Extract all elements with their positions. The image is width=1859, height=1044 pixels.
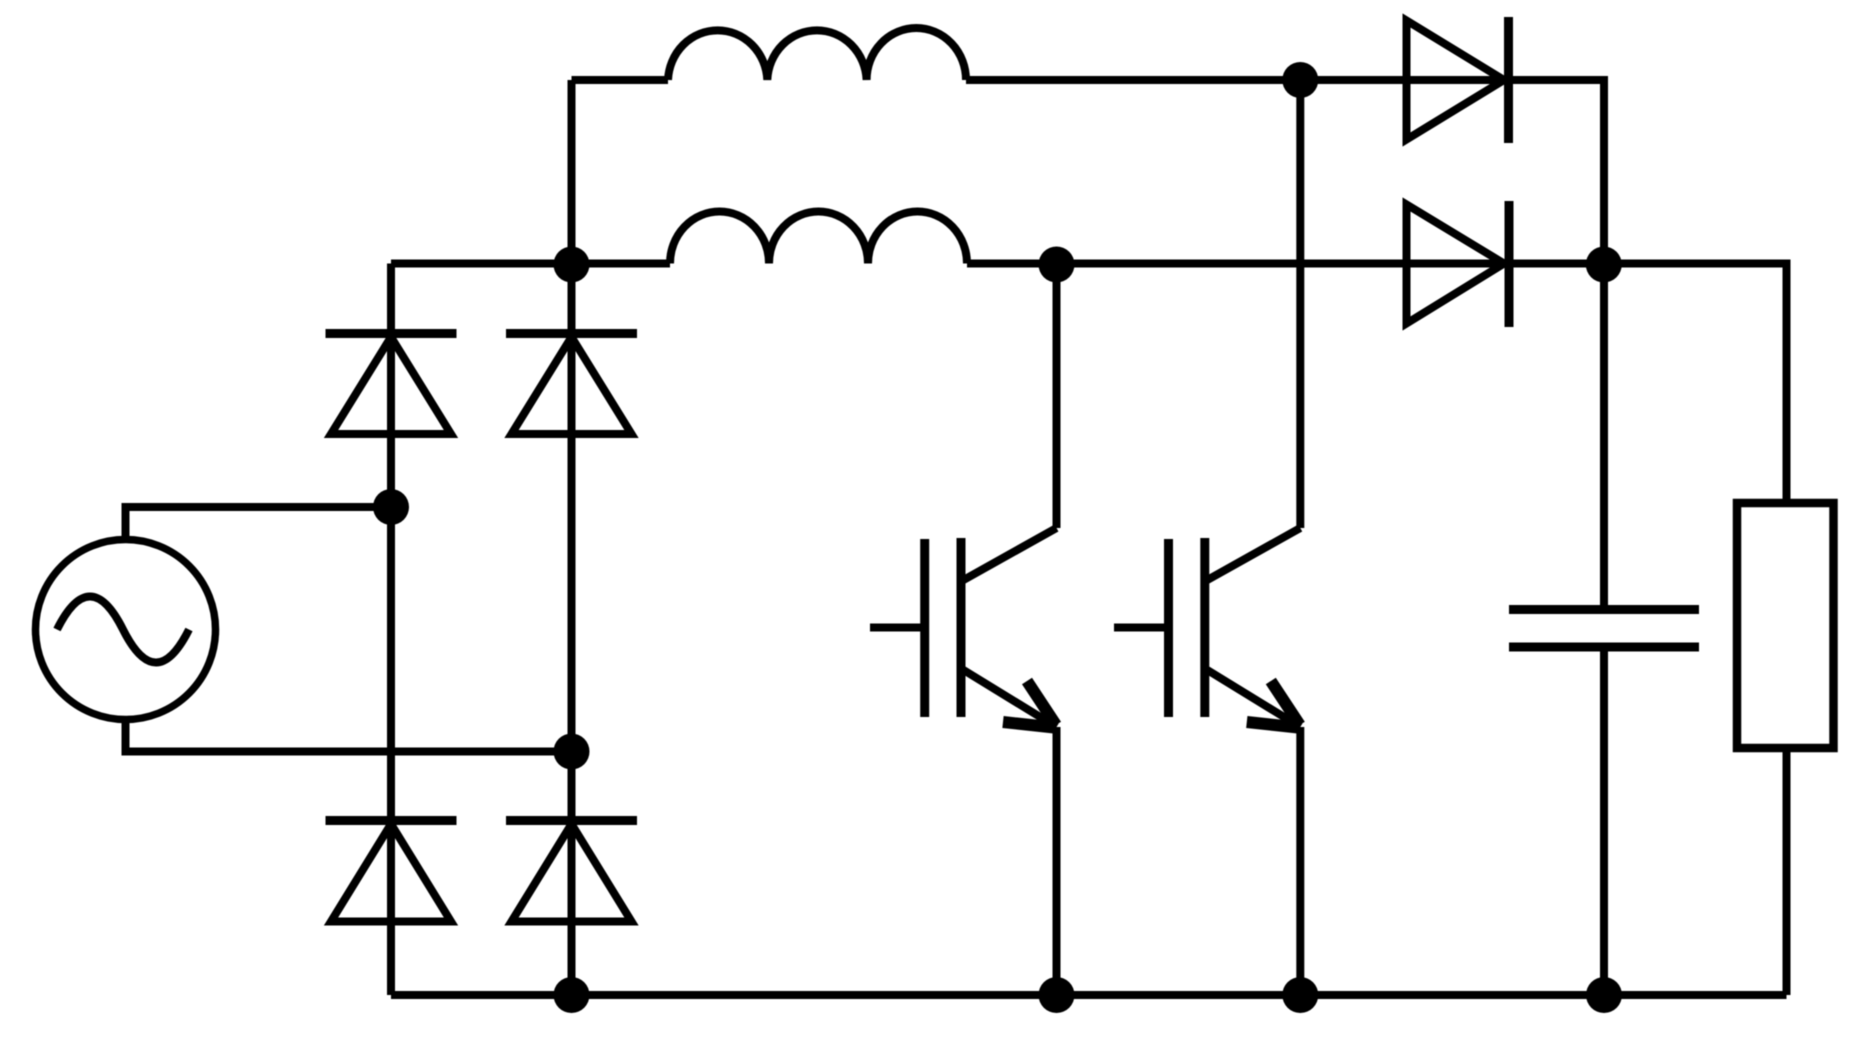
node B: AC bottom / mid bridge leg junction bbox=[554, 734, 590, 770]
wire: Q2 emitter vertical down to bottom rail bbox=[1296, 727, 1304, 995]
inductor L2 (second row, 3 humps) bbox=[670, 212, 967, 264]
wire: top rail from D5 cathode to top-right corner, down right leg to capacitor top plate bbox=[1509, 80, 1605, 610]
node J: bottom rail / capacitor junction bbox=[1586, 977, 1622, 1013]
AC source V1 (circle with sine) bbox=[36, 540, 216, 720]
wire: row2 from node C to inductor L2 bbox=[572, 260, 671, 268]
IGBT Q2 emitter diagonal with arrow bbox=[1207, 670, 1300, 727]
wire: left bridge leg vertical (row2 corner down through D1, node A, D3 to bottom rail corner) bbox=[387, 264, 395, 996]
resistor R1 load box bbox=[1737, 503, 1834, 748]
node G: bottom rail / mid leg junction bbox=[554, 977, 590, 1013]
diode D4 (bridge lower-right, cathode bar) bbox=[506, 816, 637, 825]
wire: top rail lead-in from corner to inductor L1 bbox=[572, 76, 669, 84]
IGBT Q2 emitter arrowhead bbox=[1247, 681, 1300, 728]
node F: D6 cathode / right leg junction bbox=[1586, 247, 1622, 283]
IGBT Q1 emitter arrowhead bbox=[1003, 681, 1056, 728]
wire: AC source bottom lead down and right to node B (crosses left bridge leg without junction) bbox=[126, 723, 572, 752]
diode D4 triangle bbox=[512, 824, 632, 922]
diode D2 (bridge upper-right, cathode bar) bbox=[506, 329, 637, 338]
node A: AC top / left bridge leg junction bbox=[373, 489, 409, 525]
IGBT Q2 body bar bbox=[1200, 538, 1209, 717]
wire: Q1 collector vertical up to node E bbox=[1053, 264, 1061, 528]
diode D5 cathode bar bbox=[1504, 17, 1513, 143]
capacitor C1 top plate bbox=[1509, 605, 1699, 614]
diode D6 (boost diode row2) triangle bbox=[1407, 205, 1505, 324]
wire: AC source top lead up and right to node A bbox=[126, 507, 392, 536]
wire: load bottom lead down to bottom rail corner bbox=[1783, 748, 1791, 995]
diode D2 triangle bbox=[512, 337, 632, 434]
wire: capacitor bottom lead down to bottom rail bbox=[1600, 647, 1608, 995]
diode D1 (bridge upper-left, cathode bar) bbox=[326, 329, 457, 338]
wire: top rail from L1 through node D to diode D5 bbox=[966, 76, 1504, 84]
diode D3 triangle bbox=[331, 824, 451, 922]
IGBT Q1 gate bar bbox=[920, 539, 929, 717]
node E: row2 / Q1 collector junction bbox=[1039, 247, 1075, 283]
IGBT Q1 collector diagonal bbox=[964, 528, 1057, 580]
IGBT Q1 gate lead bbox=[870, 624, 921, 632]
IGBT Q1 body bar bbox=[957, 538, 966, 717]
IGBT Q2 gate bar bbox=[1164, 539, 1173, 717]
wire: mid bridge leg vertical (top rail corner down through node C, D2, node B, D4 to bottom rail) bbox=[568, 80, 576, 995]
diode D6 cathode bar bbox=[1505, 201, 1514, 327]
IGBT Q1 emitter diagonal with arrow bbox=[964, 670, 1057, 727]
IGBT Q2 collector diagonal bbox=[1207, 528, 1300, 580]
node C: rectifier output / row2 junction bbox=[554, 247, 590, 283]
wire: bottom rail bbox=[391, 991, 1787, 999]
node D: top rail / Q2 collector junction bbox=[1282, 62, 1318, 98]
wire: row2 from L2 through node E, crossing, to diode D6 apex bbox=[967, 260, 1504, 268]
IGBT Q2 gate lead bbox=[1114, 624, 1164, 632]
wire: row2 left segment from left leg corner to node C bbox=[391, 260, 572, 268]
inductor L1 (top, 3 humps) bbox=[668, 28, 966, 80]
diode D3 (bridge lower-left, cathode bar) bbox=[326, 816, 457, 825]
diode D1 triangle bbox=[331, 337, 451, 434]
node H: bottom rail / Q1 emitter junction bbox=[1039, 977, 1075, 1013]
wire: row2 from D6 cathode through node F to right corner and down to load top bbox=[1509, 264, 1787, 504]
capacitor C1 bottom plate bbox=[1509, 643, 1699, 652]
wire: Q2 collector vertical up through row2 crossing to node D on top rail bbox=[1296, 80, 1304, 528]
diode D5 (boost diode top) triangle bbox=[1407, 21, 1505, 140]
node I: bottom rail / Q2 emitter junction bbox=[1282, 977, 1318, 1013]
wire: Q1 emitter vertical down to bottom rail bbox=[1053, 727, 1061, 995]
